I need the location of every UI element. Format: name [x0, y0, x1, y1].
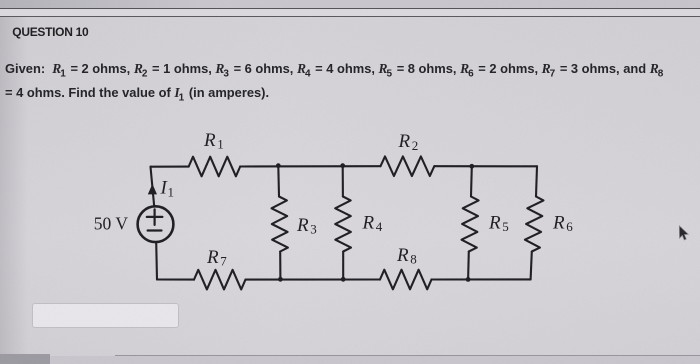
- voltage source plus sign: [147, 209, 163, 225]
- wire right edge upper: [536, 166, 537, 196]
- problem text: [5, 57, 699, 104]
- wire right edge lower: [531, 252, 532, 280]
- current arrow I1: [148, 184, 157, 195]
- wire left edge upper: [151, 167, 155, 207]
- wire top rail right: [434, 165, 537, 167]
- wire bottom rail right: [432, 278, 531, 280]
- node B dot (R4 top): [340, 163, 345, 168]
- top window band: [0, 0, 700, 8]
- node F dot (R5 bottom): [466, 277, 471, 282]
- bottom strip: [115, 355, 700, 356]
- resistor R6: [525, 197, 544, 252]
- resistor R4: [335, 197, 351, 252]
- voltage source V1 circle: [138, 206, 174, 242]
- resistor R5: [462, 197, 479, 252]
- resistor R2: [381, 156, 435, 176]
- wire R4 branch bottom: [342, 252, 344, 280]
- wire R5 branch top: [470, 166, 473, 196]
- resistor R1: [189, 157, 241, 177]
- heading: [12, 24, 88, 40]
- mouse cursor: [679, 226, 688, 240]
- wire bottom rail middle: [246, 278, 381, 280]
- wire R3 branch bottom: [279, 252, 281, 280]
- resistor R7: [194, 270, 246, 290]
- wire R3 branch top: [277, 166, 280, 197]
- resistor R8: [380, 270, 432, 290]
- wire bottom rail left: [157, 278, 194, 280]
- wire top rail left: [151, 166, 189, 168]
- node A dot (R3 top): [276, 163, 281, 168]
- node E dot (R4/R8 bottom): [341, 277, 346, 282]
- node D dot (R3 bottom): [278, 277, 283, 282]
- voltage source minus sign: [148, 229, 162, 231]
- answer input box: [32, 303, 179, 328]
- wire left edge lower: [155, 242, 158, 280]
- wire R5 branch bottom: [467, 252, 470, 280]
- node C dot (R5 top): [469, 164, 474, 169]
- wire top rail middle: [240, 165, 380, 167]
- wire R4 branch top: [342, 166, 344, 197]
- resistor R3: [272, 197, 288, 252]
